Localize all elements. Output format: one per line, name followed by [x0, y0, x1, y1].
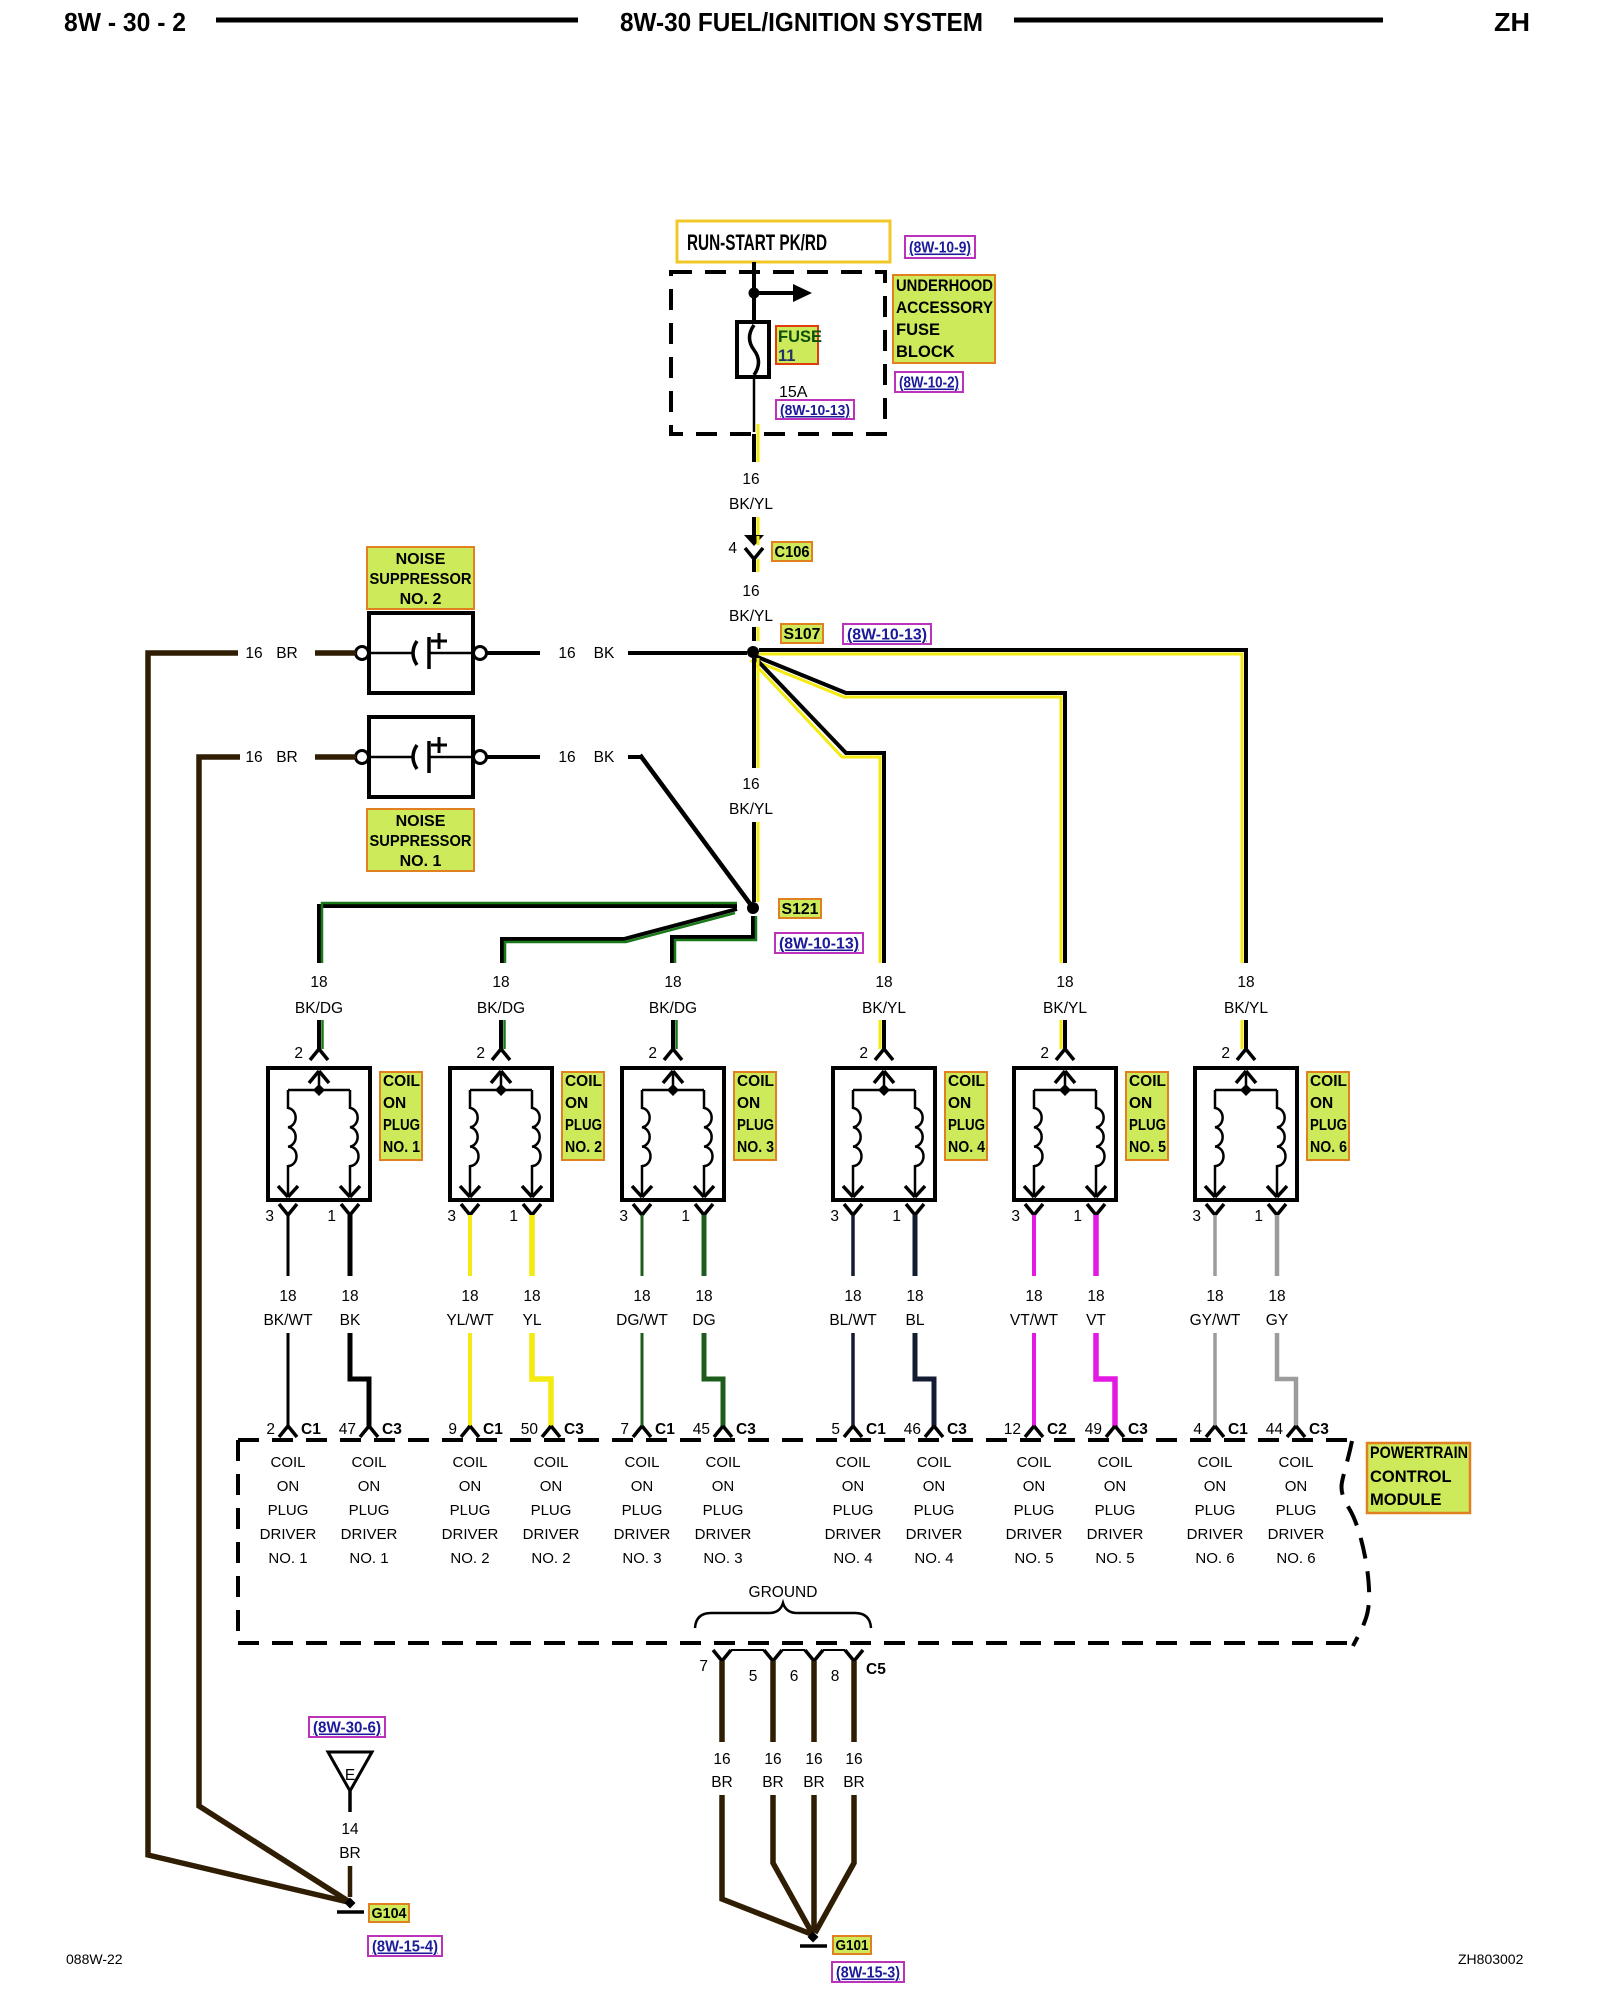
svg-text:PLUG: PLUG — [703, 1502, 744, 1519]
svg-text:BK: BK — [594, 749, 615, 766]
svg-text:11: 11 — [778, 347, 795, 365]
svg-text:COIL: COIL — [452, 1454, 487, 1471]
svg-text:DRIVER: DRIVER — [906, 1526, 963, 1543]
svg-text:18: 18 — [310, 974, 327, 991]
svg-text:ON: ON — [1104, 1478, 1127, 1495]
svg-text:(8W-10-2): (8W-10-2) — [899, 375, 959, 392]
svg-text:C1: C1 — [1228, 1421, 1248, 1438]
svg-text:16: 16 — [558, 749, 575, 766]
svg-text:1: 1 — [327, 1208, 336, 1225]
svg-text:C3: C3 — [736, 1421, 756, 1438]
svg-text:(8W-10-13): (8W-10-13) — [780, 402, 850, 419]
svg-text:44: 44 — [1266, 1421, 1284, 1438]
svg-text:ON: ON — [712, 1478, 735, 1495]
svg-text:PLUG: PLUG — [349, 1502, 390, 1519]
svg-text:C5: C5 — [866, 1661, 886, 1678]
svg-text:PLUG: PLUG — [383, 1117, 420, 1134]
svg-text:ON: ON — [1023, 1478, 1046, 1495]
svg-text:(8W-10-13): (8W-10-13) — [847, 627, 927, 644]
svg-text:2: 2 — [859, 1045, 868, 1062]
svg-text:C3: C3 — [1309, 1421, 1329, 1438]
svg-text:NO. 2: NO. 2 — [400, 591, 442, 608]
svg-text:18: 18 — [1206, 1288, 1223, 1305]
svg-text:DRIVER: DRIVER — [614, 1526, 671, 1543]
svg-text:16: 16 — [764, 1751, 781, 1768]
svg-text:BK/DG: BK/DG — [295, 1000, 343, 1017]
svg-text:DRIVER: DRIVER — [1006, 1526, 1063, 1543]
svg-text:ACCESSORY: ACCESSORY — [896, 299, 993, 317]
svg-text:18: 18 — [1056, 974, 1073, 991]
svg-text:DRIVER: DRIVER — [341, 1526, 398, 1543]
svg-text:PLUG: PLUG — [1276, 1502, 1317, 1519]
svg-text:BK/YL: BK/YL — [1224, 1000, 1268, 1017]
svg-text:BR: BR — [711, 1774, 733, 1791]
svg-text:PLUG: PLUG — [948, 1117, 985, 1134]
svg-text:COIL: COIL — [624, 1454, 659, 1471]
svg-text:C1: C1 — [483, 1421, 503, 1438]
svg-text:COIL: COIL — [916, 1454, 951, 1471]
svg-text:PLUG: PLUG — [1095, 1502, 1136, 1519]
svg-text:COIL: COIL — [270, 1454, 305, 1471]
svg-text:DRIVER: DRIVER — [1087, 1526, 1144, 1543]
svg-text:18: 18 — [695, 1288, 712, 1305]
svg-text:4: 4 — [728, 540, 737, 557]
svg-text:BK/YL: BK/YL — [729, 801, 773, 818]
svg-text:ON: ON — [277, 1478, 300, 1495]
svg-text:BR: BR — [276, 645, 298, 662]
svg-text:ON: ON — [631, 1478, 654, 1495]
svg-text:NO. 1: NO. 1 — [400, 853, 442, 870]
svg-text:DG/WT: DG/WT — [616, 1312, 668, 1329]
svg-text:S107: S107 — [784, 626, 821, 643]
svg-text:COIL: COIL — [705, 1454, 740, 1471]
svg-text:BK/YL: BK/YL — [1043, 1000, 1087, 1017]
svg-text:BK/WT: BK/WT — [263, 1312, 313, 1329]
svg-text:1: 1 — [1254, 1208, 1263, 1225]
svg-text:C3: C3 — [382, 1421, 402, 1438]
svg-text:(8W-30-6): (8W-30-6) — [313, 1720, 381, 1737]
svg-text:BK/YL: BK/YL — [729, 496, 773, 513]
svg-text:16: 16 — [742, 776, 759, 793]
svg-text:GY: GY — [1266, 1312, 1288, 1329]
svg-text:16: 16 — [245, 645, 262, 662]
svg-text:BK: BK — [340, 1312, 361, 1329]
svg-text:49: 49 — [1085, 1421, 1102, 1438]
svg-text:BK/DG: BK/DG — [477, 1000, 525, 1017]
svg-text:ON: ON — [923, 1478, 946, 1495]
svg-text:NO. 4: NO. 4 — [948, 1139, 985, 1156]
svg-text:DG: DG — [692, 1312, 715, 1329]
svg-text:DRIVER: DRIVER — [695, 1526, 752, 1543]
svg-text:NO. 1: NO. 1 — [383, 1139, 420, 1156]
svg-text:(8W-10-9): (8W-10-9) — [909, 240, 971, 257]
svg-text:ON: ON — [948, 1095, 971, 1112]
svg-text:1: 1 — [509, 1208, 518, 1225]
svg-text:NO. 4: NO. 4 — [914, 1550, 953, 1567]
svg-text:9: 9 — [448, 1421, 457, 1438]
svg-text:BK: BK — [594, 645, 615, 662]
svg-text:16: 16 — [742, 583, 759, 600]
svg-text:G101: G101 — [836, 1937, 869, 1954]
svg-text:ON: ON — [842, 1478, 865, 1495]
svg-text:COIL: COIL — [351, 1454, 386, 1471]
svg-text:VT: VT — [1086, 1312, 1106, 1329]
svg-text:NO. 2: NO. 2 — [531, 1550, 570, 1567]
svg-text:088W-22: 088W-22 — [66, 1951, 123, 1967]
svg-text:3: 3 — [1011, 1208, 1020, 1225]
svg-text:NO. 1: NO. 1 — [349, 1550, 388, 1567]
svg-text:3: 3 — [830, 1208, 839, 1225]
svg-text:YL/WT: YL/WT — [446, 1312, 494, 1329]
svg-text:16: 16 — [805, 1751, 822, 1768]
svg-text:1: 1 — [1073, 1208, 1082, 1225]
svg-text:12: 12 — [1004, 1421, 1021, 1438]
svg-text:BR: BR — [843, 1774, 865, 1791]
svg-text:C3: C3 — [564, 1421, 584, 1438]
svg-text:NO. 6: NO. 6 — [1310, 1139, 1347, 1156]
svg-text:PLUG: PLUG — [1129, 1117, 1166, 1134]
svg-text:18: 18 — [844, 1288, 861, 1305]
svg-text:16: 16 — [245, 749, 262, 766]
svg-text:3: 3 — [1192, 1208, 1201, 1225]
svg-text:C3: C3 — [947, 1421, 967, 1438]
svg-text:NO. 2: NO. 2 — [450, 1550, 489, 1567]
svg-text:(8W-15-4): (8W-15-4) — [372, 1939, 438, 1956]
svg-text:C3: C3 — [1128, 1421, 1148, 1438]
svg-text:DRIVER: DRIVER — [260, 1526, 317, 1543]
svg-text:GROUND: GROUND — [749, 1584, 818, 1601]
svg-text:NO. 6: NO. 6 — [1276, 1550, 1315, 1567]
svg-text:18: 18 — [523, 1288, 540, 1305]
svg-text:2: 2 — [1040, 1045, 1049, 1062]
svg-text:PLUG: PLUG — [450, 1502, 491, 1519]
svg-text:PLUG: PLUG — [565, 1117, 602, 1134]
svg-text:MODULE: MODULE — [1370, 1491, 1442, 1509]
svg-text:NO. 6: NO. 6 — [1195, 1550, 1234, 1567]
svg-text:NO. 5: NO. 5 — [1129, 1139, 1166, 1156]
svg-text:GY/WT: GY/WT — [1190, 1312, 1241, 1329]
svg-text:BK/YL: BK/YL — [729, 608, 773, 625]
svg-text:18: 18 — [875, 974, 892, 991]
svg-text:DRIVER: DRIVER — [825, 1526, 882, 1543]
svg-text:ON: ON — [540, 1478, 563, 1495]
svg-text:18: 18 — [1268, 1288, 1285, 1305]
svg-text:COIL: COIL — [737, 1073, 774, 1090]
svg-text:16: 16 — [742, 471, 759, 488]
svg-text:DRIVER: DRIVER — [442, 1526, 499, 1543]
svg-text:COIL: COIL — [533, 1454, 568, 1471]
svg-text:COIL: COIL — [835, 1454, 870, 1471]
svg-text:SUPPRESSOR: SUPPRESSOR — [370, 833, 472, 850]
svg-text:50: 50 — [521, 1421, 539, 1438]
svg-text:NO. 3: NO. 3 — [703, 1550, 742, 1567]
svg-text:COIL: COIL — [1097, 1454, 1132, 1471]
svg-text:18: 18 — [1237, 974, 1254, 991]
svg-text:7: 7 — [620, 1421, 629, 1438]
svg-text:NOISE: NOISE — [396, 551, 446, 568]
svg-text:2: 2 — [294, 1045, 303, 1062]
svg-text:YL: YL — [523, 1312, 542, 1329]
svg-text:SUPPRESSOR: SUPPRESSOR — [370, 571, 472, 588]
svg-text:ON: ON — [565, 1095, 588, 1112]
svg-text:8W - 30 - 2: 8W - 30 - 2 — [64, 7, 186, 37]
svg-text:47: 47 — [339, 1421, 356, 1438]
svg-text:BR: BR — [276, 749, 298, 766]
svg-text:DRIVER: DRIVER — [523, 1526, 580, 1543]
svg-text:NO. 5: NO. 5 — [1095, 1550, 1134, 1567]
svg-text:ON: ON — [459, 1478, 482, 1495]
svg-text:BK/YL: BK/YL — [862, 1000, 906, 1017]
svg-text:(8W-10-13): (8W-10-13) — [779, 936, 859, 953]
svg-text:PLUG: PLUG — [268, 1502, 309, 1519]
svg-text:ON: ON — [737, 1095, 760, 1112]
svg-text:ON: ON — [358, 1478, 381, 1495]
svg-text:POWERTRAIN: POWERTRAIN — [1370, 1444, 1468, 1462]
svg-text:FUSE: FUSE — [778, 328, 822, 346]
svg-text:4: 4 — [1193, 1421, 1202, 1438]
svg-text:C106: C106 — [775, 544, 810, 561]
svg-text:16: 16 — [558, 645, 575, 662]
svg-text:BL/WT: BL/WT — [829, 1312, 877, 1329]
svg-text:ON: ON — [1129, 1095, 1152, 1112]
svg-text:G104: G104 — [372, 1905, 408, 1922]
svg-text:15A: 15A — [779, 384, 808, 401]
svg-text:PLUG: PLUG — [531, 1502, 572, 1519]
svg-text:VT/WT: VT/WT — [1010, 1312, 1059, 1329]
svg-text:3: 3 — [265, 1208, 274, 1225]
svg-text:1: 1 — [681, 1208, 690, 1225]
svg-text:PLUG: PLUG — [737, 1117, 774, 1134]
svg-text:COIL: COIL — [565, 1073, 602, 1090]
svg-text:16: 16 — [845, 1751, 862, 1768]
svg-text:8: 8 — [831, 1668, 840, 1685]
svg-text:PLUG: PLUG — [914, 1502, 955, 1519]
svg-text:7: 7 — [699, 1658, 708, 1675]
svg-text:ZH803002: ZH803002 — [1458, 1951, 1524, 1967]
svg-text:2: 2 — [266, 1421, 275, 1438]
svg-text:BLOCK: BLOCK — [896, 343, 955, 361]
svg-text:UNDERHOOD: UNDERHOOD — [896, 277, 993, 295]
svg-text:5: 5 — [749, 1668, 758, 1685]
svg-text:COIL: COIL — [1197, 1454, 1232, 1471]
svg-text:18: 18 — [1087, 1288, 1104, 1305]
svg-text:NO. 3: NO. 3 — [737, 1139, 774, 1156]
svg-text:5: 5 — [831, 1421, 840, 1438]
svg-text:NO. 2: NO. 2 — [565, 1139, 602, 1156]
svg-text:18: 18 — [906, 1288, 923, 1305]
svg-text:C2: C2 — [1047, 1421, 1067, 1438]
svg-text:PLUG: PLUG — [622, 1502, 663, 1519]
svg-text:PLUG: PLUG — [833, 1502, 874, 1519]
svg-text:18: 18 — [341, 1288, 358, 1305]
svg-text:18: 18 — [633, 1288, 650, 1305]
svg-text:14: 14 — [341, 1821, 359, 1838]
svg-text:DRIVER: DRIVER — [1268, 1526, 1325, 1543]
svg-text:BR: BR — [803, 1774, 825, 1791]
svg-text:CONTROL: CONTROL — [1370, 1468, 1452, 1486]
svg-text:NO. 3: NO. 3 — [622, 1550, 661, 1567]
svg-text:NOISE: NOISE — [396, 813, 446, 830]
svg-text:ON: ON — [383, 1095, 406, 1112]
svg-text:ZH: ZH — [1494, 7, 1530, 37]
svg-text:45: 45 — [693, 1421, 710, 1438]
svg-text:COIL: COIL — [1278, 1454, 1313, 1471]
svg-text:1: 1 — [892, 1208, 901, 1225]
svg-text:C1: C1 — [655, 1421, 675, 1438]
svg-text:16: 16 — [713, 1751, 730, 1768]
svg-text:18: 18 — [279, 1288, 296, 1305]
svg-text:DRIVER: DRIVER — [1187, 1526, 1244, 1543]
svg-text:NO. 5: NO. 5 — [1014, 1550, 1053, 1567]
svg-text:18: 18 — [664, 974, 681, 991]
svg-text:FUSE: FUSE — [896, 321, 940, 339]
svg-text:BL: BL — [906, 1312, 925, 1329]
svg-text:ON: ON — [1285, 1478, 1308, 1495]
svg-text:C1: C1 — [301, 1421, 321, 1438]
svg-text:8W-30 FUEL/IGNITION SYSTEM: 8W-30 FUEL/IGNITION SYSTEM — [620, 7, 983, 37]
svg-text:NO. 4: NO. 4 — [833, 1550, 872, 1567]
svg-text:COIL: COIL — [383, 1073, 420, 1090]
svg-text:RUN-START PK/RD: RUN-START PK/RD — [687, 230, 827, 255]
svg-text:S121: S121 — [782, 901, 819, 918]
svg-text:PLUG: PLUG — [1014, 1502, 1055, 1519]
svg-text:ON: ON — [1204, 1478, 1227, 1495]
svg-text:E: E — [345, 1767, 355, 1784]
svg-text:2: 2 — [648, 1045, 657, 1062]
svg-text:6: 6 — [790, 1668, 799, 1685]
svg-text:BR: BR — [762, 1774, 784, 1791]
svg-text:18: 18 — [461, 1288, 478, 1305]
svg-text:BR: BR — [339, 1845, 361, 1862]
svg-text:(8W-15-3): (8W-15-3) — [836, 1965, 900, 1982]
svg-text:46: 46 — [904, 1421, 921, 1438]
svg-text:COIL: COIL — [1310, 1073, 1347, 1090]
svg-text:3: 3 — [447, 1208, 456, 1225]
svg-text:COIL: COIL — [1129, 1073, 1166, 1090]
svg-text:C1: C1 — [866, 1421, 886, 1438]
svg-text:PLUG: PLUG — [1195, 1502, 1236, 1519]
svg-text:PLUG: PLUG — [1310, 1117, 1347, 1134]
svg-text:18: 18 — [492, 974, 509, 991]
svg-text:2: 2 — [476, 1045, 485, 1062]
svg-text:COIL: COIL — [1016, 1454, 1051, 1471]
svg-text:ON: ON — [1310, 1095, 1333, 1112]
svg-text:18: 18 — [1025, 1288, 1042, 1305]
svg-text:3: 3 — [619, 1208, 628, 1225]
svg-text:BK/DG: BK/DG — [649, 1000, 697, 1017]
svg-text:NO. 1: NO. 1 — [268, 1550, 307, 1567]
svg-text:2: 2 — [1221, 1045, 1230, 1062]
svg-text:COIL: COIL — [948, 1073, 985, 1090]
